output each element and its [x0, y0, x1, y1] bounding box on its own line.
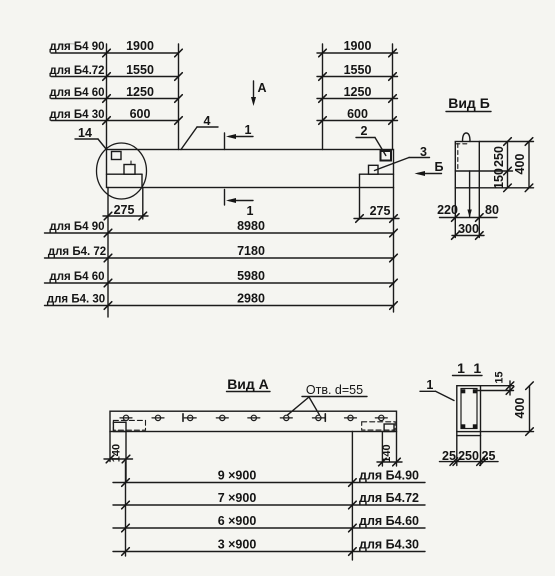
svg-text:Б: Б [435, 160, 444, 174]
label 3 with leader [409, 157, 430, 159]
svg-text:для Б4 60: для Б4 60 [49, 271, 104, 283]
left hidden dashed rect [113, 420, 145, 430]
svg-text:7180: 7180 [237, 244, 265, 258]
svg-text:8980: 8980 [237, 219, 265, 233]
svg-text:275: 275 [114, 203, 135, 217]
140 dimension right end [381, 432, 383, 467]
svg-text:25: 25 [482, 449, 496, 463]
rib line in lower part [469, 171, 471, 217]
svg-text:Вид А: Вид А [227, 376, 269, 392]
title underline Vid B [446, 111, 491, 113]
svg-text:275: 275 [370, 204, 391, 218]
bottom dimension table [113, 482, 425, 484]
svg-text:1550: 1550 [126, 63, 154, 77]
svg-text:Отв. d=55: Отв. d=55 [306, 383, 363, 397]
view arrow A [253, 81, 255, 100]
bottom dimension 220/80 [440, 217, 498, 219]
dimension 15 [481, 385, 514, 387]
svg-text:140: 140 [381, 444, 393, 462]
svg-text:1: 1 [245, 123, 252, 137]
svg-text:140: 140 [111, 444, 123, 462]
inner box [461, 389, 477, 429]
svg-text:400: 400 [513, 154, 527, 175]
title underline Vid A [227, 391, 271, 393]
plan view rectangle [110, 411, 397, 431]
svg-text:для Б4.30: для Б4.30 [359, 538, 419, 552]
right block (detail 3) [369, 165, 379, 174]
right solid plate [384, 424, 394, 432]
outer box [457, 386, 481, 432]
svg-text:600: 600 [130, 107, 151, 121]
svg-text:для Б4.60: для Б4.60 [359, 514, 419, 528]
lifting loop on top [463, 133, 471, 142]
svg-text:150: 150 [492, 168, 506, 189]
view arrow B (points left) [418, 173, 442, 175]
svg-text:4: 4 [204, 114, 211, 128]
svg-text:3 ×900: 3 ×900 [218, 538, 257, 552]
svg-text:1250: 1250 [344, 85, 372, 99]
svg-text:1: 1 [457, 360, 465, 376]
extension lines below section [454, 188, 456, 238]
upper-right dimension ladder [317, 52, 398, 54]
dimension line 250/150 [507, 142, 509, 188]
svg-text:для Б4 90: для Б4 90 [49, 221, 104, 233]
svg-text:5980: 5980 [237, 269, 265, 283]
svg-text:для Б4 90: для Б4 90 [49, 41, 104, 53]
dimension 400 (right) [481, 431, 534, 433]
svg-text:2: 2 [361, 124, 368, 138]
svg-text:для Б4.72: для Б4.72 [359, 491, 419, 505]
I marks near holes [182, 414, 184, 422]
label 2 with leader [356, 137, 375, 139]
extension line right of left ladder [178, 44, 180, 150]
extension line: beam left edge extended up [106, 44, 108, 150]
svg-text:15: 15 [494, 371, 506, 383]
Otv d=55 underline and leaders [302, 396, 367, 398]
svg-text:300: 300 [458, 222, 479, 236]
title underline [453, 375, 483, 377]
svg-text:400: 400 [513, 398, 527, 419]
section cut 1 above beam [224, 133, 226, 150]
corner plates [461, 389, 477, 428]
svg-text:1: 1 [473, 360, 481, 376]
svg-text:600: 600 [347, 107, 368, 121]
svg-text:для Б4. 30: для Б4. 30 [47, 294, 105, 306]
svg-text:25: 25 [442, 449, 456, 463]
vertical from hole to bottom table [351, 432, 353, 561]
ticks left ladder [103, 49, 111, 57]
upper-left dimension ladder: 4 horizontal lines [51, 52, 179, 54]
svg-text:1: 1 [426, 378, 433, 392]
svg-text:250: 250 [458, 449, 479, 463]
detail circle at left end [97, 143, 147, 199]
svg-text:9 ×900: 9 ×900 [218, 469, 257, 483]
left end step [107, 173, 143, 175]
section cut 1 below beam [224, 190, 226, 206]
right end step [360, 173, 394, 175]
svg-text:Вид Б: Вид Б [448, 95, 490, 111]
275 dimension left [107, 188, 109, 318]
hidden dashed lines in section [457, 144, 459, 169]
svg-text:7 ×900: 7 ×900 [218, 491, 257, 505]
svg-text:1550: 1550 [344, 63, 372, 77]
right notch square (detail 2) [381, 151, 392, 161]
svg-text:для Б4.90: для Б4.90 [359, 469, 419, 483]
svg-text:1: 1 [247, 204, 254, 218]
140 dimension left end [109, 432, 111, 462]
stray faint mark top-left [60, 44, 75, 45]
left solid plate [113, 422, 126, 431]
svg-text:6 ×900: 6 ×900 [218, 514, 257, 528]
svg-text:1900: 1900 [344, 39, 372, 53]
svg-text:для Б4.72: для Б4.72 [49, 65, 104, 77]
holes row [120, 415, 387, 420]
middle dimension table: 4 lines [45, 232, 395, 234]
label 4 with leader [197, 126, 218, 128]
svg-text:для Б4 30: для Б4 30 [49, 109, 104, 121]
svg-text:220: 220 [437, 203, 458, 217]
svg-text:250: 250 [492, 146, 506, 167]
svg-text:14: 14 [78, 126, 92, 140]
svg-text:1900: 1900 [126, 39, 154, 53]
svg-text:для Б4 60: для Б4 60 [49, 87, 104, 99]
svg-text:80: 80 [485, 203, 499, 217]
label 14 with leader [75, 138, 98, 140]
left small square detail [112, 152, 122, 160]
275 dimension right [359, 188, 361, 220]
svg-text:3: 3 [420, 145, 427, 159]
base line below section [457, 435, 481, 437]
svg-text:1250: 1250 [126, 85, 154, 99]
svg-text:2980: 2980 [237, 292, 265, 306]
extension lines right of section [479, 141, 533, 143]
svg-text:для Б4. 72: для Б4. 72 [48, 246, 106, 258]
left block on step [124, 165, 135, 175]
bottom dimension 300 [452, 235, 484, 237]
right hidden dashed rect [362, 422, 396, 430]
section view B (Vid B) outline [455, 142, 479, 188]
beam outline (side view) [107, 150, 394, 188]
label 1 leader [420, 390, 436, 392]
dimension 25/250/25 [440, 461, 499, 463]
dimension line 400 [528, 142, 530, 188]
svg-text:А: А [257, 81, 266, 95]
